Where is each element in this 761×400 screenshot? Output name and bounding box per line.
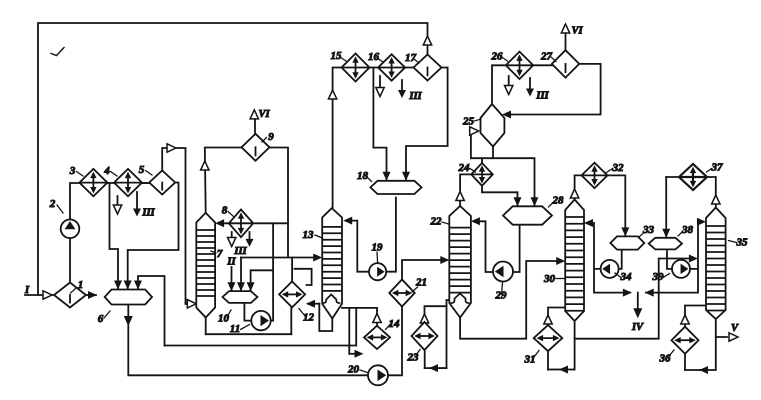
svg-text:3: 3: [69, 165, 76, 177]
svg-text:VI: VI: [571, 26, 583, 37]
svg-text:22: 22: [430, 216, 443, 228]
svg-text:10: 10: [218, 313, 230, 325]
svg-text:IV: IV: [631, 322, 644, 333]
svg-text:1: 1: [78, 279, 84, 291]
svg-text:37: 37: [711, 162, 724, 174]
svg-text:20: 20: [347, 364, 360, 376]
svg-text:III: III: [141, 208, 155, 219]
svg-text:9: 9: [268, 131, 274, 143]
svg-text:VI: VI: [258, 109, 270, 120]
svg-text:15: 15: [331, 50, 343, 62]
svg-text:29: 29: [495, 290, 508, 302]
svg-text:30: 30: [543, 273, 556, 285]
svg-text:36: 36: [659, 353, 672, 365]
svg-text:24: 24: [458, 162, 471, 174]
svg-text:17: 17: [405, 52, 417, 64]
svg-text:33: 33: [642, 224, 655, 236]
svg-text:8: 8: [222, 205, 228, 217]
svg-text:28: 28: [552, 195, 565, 207]
svg-text:7: 7: [217, 248, 223, 260]
svg-text:39: 39: [652, 271, 665, 283]
svg-text:II: II: [226, 257, 236, 268]
svg-text:5: 5: [139, 164, 145, 176]
svg-text:32: 32: [612, 162, 625, 174]
svg-text:12: 12: [303, 312, 315, 324]
svg-text:6: 6: [98, 313, 104, 325]
svg-text:V: V: [731, 323, 739, 334]
svg-text:21: 21: [415, 277, 427, 289]
svg-text:11: 11: [230, 323, 240, 335]
svg-text:38: 38: [681, 224, 694, 236]
svg-text:16: 16: [368, 51, 380, 63]
svg-text:III: III: [535, 91, 549, 102]
svg-text:2: 2: [49, 198, 56, 210]
svg-text:31: 31: [524, 354, 536, 366]
svg-text:4: 4: [103, 165, 110, 177]
svg-text:25: 25: [462, 116, 475, 128]
svg-text:35: 35: [736, 237, 749, 249]
svg-text:III: III: [408, 91, 422, 102]
svg-text:III: III: [233, 246, 247, 257]
svg-text:13: 13: [303, 229, 315, 241]
